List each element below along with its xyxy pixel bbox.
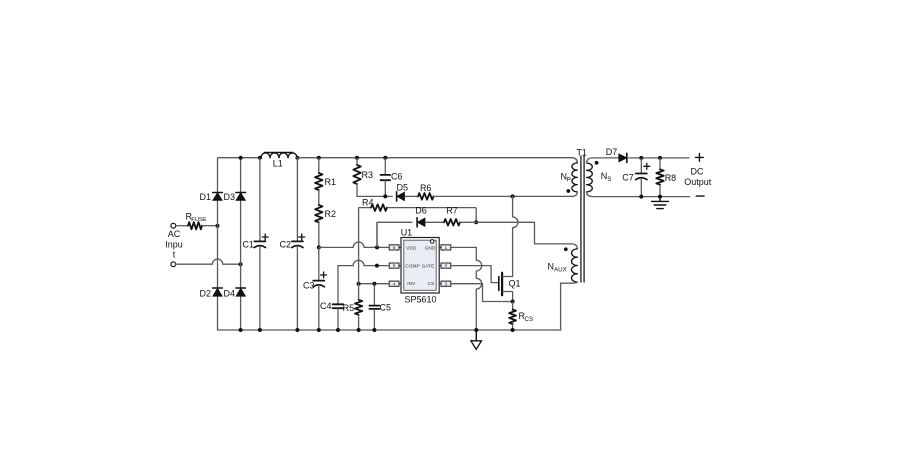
svg-text:COMP: COMP [405, 264, 419, 270]
svg-text:R2: R2 [325, 209, 337, 219]
wire Np bottom corner [572, 192, 578, 197]
wire left bridge leg [217, 158, 219, 330]
ic U1 pin stub [399, 283, 401, 285]
capacitor C7 [640, 158, 642, 174]
svg-text:R8: R8 [665, 173, 677, 183]
junction top bus C6 [383, 156, 387, 160]
ic U1 pin stub [399, 265, 401, 267]
wire fuse to bridge [202, 225, 218, 227]
wire VDD drop top corner [377, 222, 412, 247]
wire R3 bottom corner [357, 184, 392, 196]
svg-text:Inpu: Inpu [165, 240, 183, 250]
svg-text:C6: C6 [391, 172, 403, 182]
wire bottom bus [218, 329, 561, 331]
capacitor C5 [373, 284, 375, 306]
svg-text:VDD: VDD [406, 245, 417, 251]
wire VDD drop from D6 wire [376, 222, 378, 247]
label output plus [696, 154, 704, 162]
svg-text:R3: R3 [362, 170, 374, 180]
junction RCS bus [511, 328, 515, 332]
ground symbol (signal gnd triangle) [475, 330, 477, 341]
label C3 plus [321, 272, 327, 278]
wire GND (pin3) corner [451, 247, 482, 330]
svg-text:D4: D4 [224, 289, 236, 299]
junction COMP stray [375, 264, 379, 268]
svg-text:AUX: AUX [554, 267, 567, 274]
junction INV-R5 [357, 282, 361, 286]
diode D5 [397, 192, 405, 200]
wire R4 down to D6 wire [475, 208, 477, 223]
resistor R8 [659, 158, 661, 169]
diode D2 [213, 287, 223, 289]
ic U1 pin box 4 [389, 281, 399, 286]
svg-text:L1: L1 [273, 159, 283, 169]
transformer aux winding NAUX [572, 249, 578, 282]
svg-text:D7: D7 [606, 147, 618, 157]
svg-text:INV: INV [407, 281, 416, 287]
ic U1 pin stub [399, 246, 401, 248]
junction GND bus [474, 328, 478, 332]
ic U1 pin box 6 [389, 245, 399, 250]
junction bottom bus x=318.8 [317, 328, 321, 332]
label C1 plus [262, 234, 268, 240]
wire R1-R2 [318, 190, 320, 205]
wire top bus left of L1 [218, 157, 262, 159]
ic U1 body [401, 238, 439, 294]
junction bottom bus x=240.6 [239, 328, 243, 332]
resistor RCS [509, 310, 516, 324]
svg-text:P: P [567, 177, 571, 184]
junction R4/R7 wire [474, 220, 478, 224]
capacitor C4 [337, 266, 339, 305]
label output minus [696, 195, 704, 197]
label C2 plus [299, 234, 305, 240]
svg-text:R6: R6 [420, 183, 432, 193]
wire R1 top [318, 158, 320, 173]
svg-text:D6: D6 [415, 206, 427, 216]
wire to RCS [512, 302, 514, 310]
junction C7 top [639, 156, 643, 160]
wire Q1 drain up with hop [513, 196, 518, 276]
junction C4 bus [336, 328, 340, 332]
svg-text:C2: C2 [279, 239, 291, 249]
wire COMP (pin5) with hop [338, 260, 389, 265]
ic U1 pin box 3 [441, 281, 451, 286]
capacitor C1 [259, 158, 261, 242]
wire Ns bottom corner [587, 192, 690, 197]
label C7 plus [644, 163, 650, 169]
svg-text:R1: R1 [325, 177, 337, 187]
svg-text:DC: DC [691, 167, 704, 177]
wire CS (pin1) corner [451, 284, 513, 302]
transformer primary winding NP [572, 163, 577, 192]
junction bottom bus x=259.9 [258, 328, 262, 332]
junction fuse-bridge [216, 224, 220, 228]
junction R5 bus [357, 328, 361, 332]
resistor R4 [371, 204, 387, 211]
wire AC bottom to bridge (hop over left leg) [176, 259, 241, 264]
svg-text:C1: C1 [242, 239, 254, 249]
svg-text:R5: R5 [343, 303, 355, 313]
wire R4 left [359, 207, 371, 209]
capacitor C3 [318, 247, 320, 280]
resistor R5 [355, 300, 362, 315]
ic U1 pin box 5 [389, 263, 399, 268]
svg-text:D2: D2 [199, 289, 211, 299]
svg-text:GND: GND [425, 245, 436, 251]
polarity dot NP [566, 189, 570, 193]
junction R8 bottom [658, 195, 662, 199]
svg-text:Q1: Q1 [509, 279, 521, 289]
junction C6-snubber wire [383, 194, 387, 198]
svg-text:D1: D1 [199, 192, 211, 202]
svg-text:C7: C7 [622, 172, 634, 182]
svg-text:SP5610: SP5610 [404, 295, 436, 305]
svg-text:U1: U1 [401, 228, 413, 238]
capacitor C6 [384, 158, 386, 175]
resistor R2 [315, 205, 322, 222]
wire D6 to R7 [425, 221, 444, 223]
junction INV-C5 [372, 282, 376, 286]
wire R4 right [387, 207, 476, 209]
svg-text:FUSE: FUSE [191, 217, 207, 223]
junction ACbottom-D3D4 [239, 262, 243, 266]
polarity dot NS [595, 161, 599, 165]
junction R8 top [658, 156, 662, 160]
junction C7 bottom [639, 195, 643, 199]
transformer core [580, 156, 582, 283]
resistor R7 [444, 219, 460, 226]
junction switch node [511, 194, 515, 198]
resistor R1 [315, 173, 322, 190]
svg-text:T1: T1 [576, 148, 587, 158]
svg-text:CS: CS [428, 281, 435, 287]
resistor R6 [418, 193, 434, 200]
wire R3 top [356, 158, 358, 165]
svg-text:D5: D5 [397, 183, 409, 193]
ic U1 pin1 indicator [430, 240, 434, 244]
wire RCS to bus [512, 324, 514, 330]
diode D3 [236, 192, 246, 194]
junction top bus R3 [355, 156, 359, 160]
junction C5 bus [372, 328, 376, 332]
diode D7 [619, 154, 627, 162]
svg-text:GATE: GATE [422, 264, 435, 270]
junction R2/C3/VDD [317, 245, 321, 249]
junction top bus D3D4 [239, 156, 243, 160]
transformer secondary winding NS [587, 163, 593, 192]
wire VDD (pin6) with hop [319, 242, 389, 247]
wire top bus right of L1 [297, 158, 577, 163]
ground output earth symbol [659, 197, 661, 202]
svg-text:S: S [607, 176, 611, 183]
node AC input top terminal [171, 223, 176, 228]
wire Naux bottom return [561, 282, 578, 330]
diode D1 [213, 192, 223, 194]
inductor L1 [261, 153, 297, 158]
transistor Q1 [498, 277, 500, 291]
ic U1 pin box 2 [441, 263, 451, 268]
junction L1 right [295, 156, 299, 160]
junction bottom bus x=297.4 [295, 328, 299, 332]
wire Q1 source down [512, 292, 514, 302]
junction top bus R1 [317, 156, 321, 160]
wire R7 to Naux corner [460, 222, 577, 249]
wire R6 to switch node [434, 195, 572, 197]
svg-text:CS: CS [525, 316, 534, 323]
diode D4 [236, 287, 246, 289]
wire R5 to bus [358, 315, 360, 330]
wire R2 to VDD node [318, 222, 320, 247]
junction VDD drop [375, 245, 379, 249]
wire INV (pin4) [359, 283, 390, 285]
svg-text:C5: C5 [380, 303, 392, 313]
wire D7 to output+ [627, 157, 690, 159]
svg-text:Output: Output [684, 177, 712, 187]
svg-text:R4: R4 [362, 198, 374, 208]
svg-text:R7: R7 [446, 206, 458, 216]
ic U1 pin box 1 [441, 245, 451, 250]
polarity dot NAUX [564, 247, 568, 251]
resistor R3 [353, 165, 360, 184]
wire Ns top corner [587, 158, 619, 163]
resistor RFUSE [188, 222, 202, 229]
wire GATE (pin2) corner [451, 266, 499, 283]
junction Q1 source / CS / RCS [511, 300, 515, 304]
svg-text:C4: C4 [320, 301, 332, 311]
svg-text:D3: D3 [224, 192, 236, 202]
wire R4R5 vertical [358, 208, 360, 300]
wire D5 to R6 [405, 195, 419, 197]
junction L1 left [258, 156, 262, 160]
wire D3 D4 bridge leg [240, 158, 242, 330]
node AC input bottom terminal [171, 262, 176, 267]
wire AC top to fuse [176, 225, 189, 227]
svg-text:AC: AC [168, 229, 181, 239]
svg-text:C3: C3 [303, 281, 315, 291]
capacitor C2 [296, 158, 298, 242]
diode D6 [417, 218, 425, 226]
